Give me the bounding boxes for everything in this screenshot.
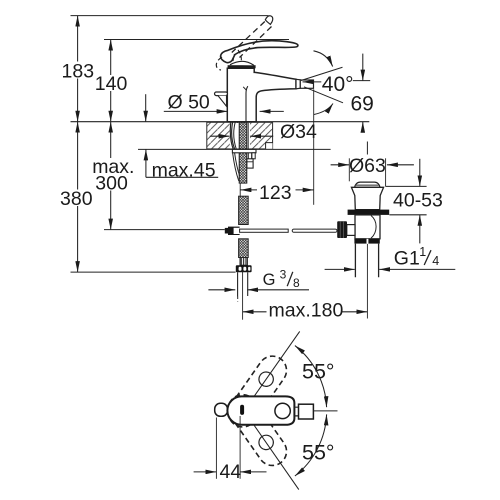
raised lever dashed edge 1: [232, 22, 265, 53]
side lever pill: [215, 92, 228, 96]
reference line top of handle (140 top): [104, 39, 289, 41]
deck notch lower right: [266, 143, 273, 149]
braided hose lower section: [239, 239, 249, 258]
lower 55deg arc: [295, 414, 327, 476]
40-53 upper arrow: [419, 159, 421, 187]
bottom view spout connector: [294, 407, 298, 416]
svg-text:max.180: max.180: [269, 300, 344, 322]
hose curve 3 inside hole: [234, 122, 236, 149]
drain body: [355, 215, 380, 239]
bottom view aerator box: [299, 404, 314, 419]
O34 left arrow: [210, 135, 230, 137]
44 left arrow: [194, 471, 217, 473]
pivot dashed arc: [238, 50, 241, 63]
upper 55deg arc: [295, 346, 327, 408]
clamp washer under deck: [232, 149, 256, 152]
svg-text:40-53: 40-53: [393, 189, 443, 211]
123 right extension line: [313, 89, 315, 205]
drain body inner curve: [371, 216, 376, 239]
40deg upper angle line: [301, 67, 343, 80]
shank inner line: [247, 123, 249, 149]
svg-text:1: 1: [419, 245, 426, 259]
deck top reference line: [71, 121, 370, 123]
44 right arrow: [240, 471, 266, 473]
40-53 lower arrow: [419, 215, 421, 244]
svg-text:G: G: [263, 271, 276, 289]
pop-up rod left segment: [240, 229, 289, 232]
deck bottom reference line / O34 leader underline: [138, 148, 331, 150]
svg-text:380: 380: [60, 188, 93, 210]
svg-text:40°: 40°: [322, 73, 354, 96]
spout level tick for 69: [353, 80, 370, 82]
cartridge dome: [230, 61, 254, 65]
380 bottom reference line: [71, 271, 236, 273]
dimension 380 line: [77, 122, 79, 272]
G3/8 left arrow: [208, 289, 235, 291]
svg-text:max.45: max.45: [152, 159, 216, 181]
lower 55deg axis line: [254, 426, 298, 490]
upper 55deg axis line: [254, 331, 299, 396]
drain flange: [351, 187, 383, 209]
lever handle blade with front cap: [221, 41, 298, 63]
drain plug cap: [355, 182, 380, 187]
bottom view slot mark: [240, 405, 244, 415]
svg-text:300: 300: [95, 173, 128, 195]
svg-text:Ø34: Ø34: [280, 121, 317, 143]
44 right extension line: [239, 416, 241, 479]
svg-text:8: 8: [293, 276, 300, 290]
hose nut G3/8: [236, 265, 252, 272]
svg-text:55°: 55°: [302, 360, 335, 384]
G1 1/4 leader line: [379, 268, 455, 270]
svg-text:123: 123: [259, 182, 292, 204]
raised lever dashed edge 2: [240, 27, 272, 58]
pop-up rod junction block: [225, 228, 228, 234]
deck cross-section hatched slab: [207, 122, 273, 149]
lever cap crease line: [233, 54, 234, 61]
bottom view horizontal axis line: [313, 410, 337, 412]
drain top centerline: [366, 142, 368, 155]
40deg upper arc: [314, 51, 333, 67]
40-53 top reference line: [385, 185, 426, 187]
svg-text:44: 44: [220, 461, 242, 483]
O63 right arrow: [387, 164, 414, 166]
drain rod inlet box: [347, 225, 355, 236]
side lever stem: [218, 96, 227, 107]
max180 dimension line: [243, 311, 368, 313]
faucet body silhouette: [227, 68, 296, 122]
hose crimp collar: [240, 258, 247, 266]
44 left extension line: [215, 418, 217, 479]
69 lower arrow: [362, 122, 364, 133]
max180 left extension line: [242, 272, 244, 320]
drain gasket ring: [348, 210, 390, 215]
G3/8 fraction slash: [287, 272, 293, 286]
handle skirt dark band: [228, 65, 256, 68]
drain nut band: [354, 239, 379, 244]
raised lever tip (phantom position): [265, 16, 272, 25]
G3/8 leader line: [247, 289, 309, 291]
dimension 183 line: [77, 16, 79, 122]
O63 right extension line: [385, 158, 387, 186]
body inner contour line: [246, 86, 248, 121]
bottom view ghost handle rotated down 55deg: [223, 389, 292, 471]
svg-text:Ø63: Ø63: [349, 155, 386, 177]
O63 left extension line: [348, 158, 350, 181]
40deg leader arrow: [303, 81, 322, 83]
braided hose upper section through deck: [239, 122, 247, 183]
svg-text:Ø 50: Ø 50: [168, 92, 210, 114]
40-53 bottom reference line: [389, 214, 426, 216]
hose curve below deck: [233, 153, 239, 181]
max300 bottom reference line: [104, 229, 225, 231]
hose tail pipe: [238, 272, 248, 296]
O63 left arrow: [331, 164, 350, 166]
braided hose middle section: [239, 196, 249, 224]
bottom view side lever tab: [215, 403, 228, 416]
bottom view cartridge circle: [275, 403, 290, 418]
40deg lower angle line: [304, 87, 343, 103]
drain centerline lower: [366, 244, 368, 319]
svg-text:55°: 55°: [302, 440, 335, 464]
body inner crease dash: [243, 87, 246, 90]
svg-text:G1: G1: [394, 247, 420, 269]
123 dimension line: [240, 189, 313, 191]
123 extension line at hose: [239, 184, 241, 197]
69 upper arrow: [362, 54, 364, 81]
max45 leader line: [146, 176, 218, 178]
G1 1/4 left arrow: [325, 268, 355, 270]
O34 right arrow: [250, 135, 273, 137]
hose curve 2 inside hole: [230, 122, 233, 149]
svg-text:4: 4: [432, 254, 439, 268]
max45 upper arrow: [145, 94, 147, 122]
O50 left leader arrow: [164, 110, 228, 112]
drain knurled knob: [337, 221, 347, 238]
raised lever body dashed ghost: [216, 57, 222, 70]
svg-text:183: 183: [62, 60, 95, 82]
deck mounting hole: [230, 123, 250, 148]
pop-up rod right segment: [292, 229, 337, 232]
O50 right arrow: [260, 110, 284, 112]
G1 1/4 fraction slash: [424, 250, 431, 265]
aerator box: [300, 80, 313, 88]
fixing stud: [248, 153, 251, 159]
svg-text:69: 69: [351, 93, 374, 116]
clamp side tab: [252, 153, 255, 159]
hose curve inside hole: [232, 122, 235, 149]
hose curve 2 below deck: [235, 153, 240, 176]
max45 lower arrow: [145, 149, 147, 177]
fixing nut: [247, 159, 253, 168]
40deg lower arc: [314, 104, 333, 115]
drain tail pipe: [355, 244, 378, 278]
bottom view ghost handle rotated up 55deg: [223, 351, 292, 433]
bottom view faucet body stadium: [227, 396, 294, 424]
dimension max300 line: [110, 122, 112, 230]
svg-text:140: 140: [95, 73, 128, 95]
aerator end cap: [296, 79, 300, 89]
dimension 140 line: [110, 40, 112, 122]
svg-text:3: 3: [280, 268, 287, 282]
reference line top of raised lever (183 top): [71, 15, 269, 17]
